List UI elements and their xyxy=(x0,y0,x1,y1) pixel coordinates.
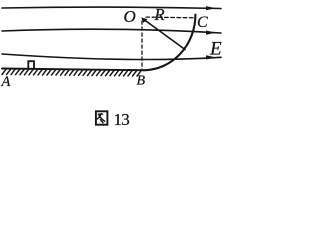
arrowhead at O on radius line xyxy=(141,18,147,23)
svg-text:13: 13 xyxy=(114,110,130,129)
arrowhead on field line E1 xyxy=(206,6,216,10)
circular arc from B to C xyxy=(144,15,196,71)
dashed radius OC xyxy=(146,16,195,19)
svg-text:E: E xyxy=(209,39,222,60)
ground line xyxy=(2,69,143,71)
field line E1 xyxy=(2,7,221,8)
field line E3 xyxy=(2,54,221,60)
block on ground xyxy=(28,61,34,68)
caption character 图 xyxy=(96,111,108,124)
radius line R xyxy=(143,19,185,50)
svg-text:B: B xyxy=(137,73,146,88)
svg-text:C: C xyxy=(197,14,208,31)
svg-text:A: A xyxy=(1,74,11,90)
dashed radius OB xyxy=(141,21,143,70)
arrowhead on field line E2 xyxy=(206,31,216,35)
svg-text:O: O xyxy=(124,7,136,26)
arrowhead on field line E3 xyxy=(206,55,216,59)
ground hatching xyxy=(2,69,141,76)
field line E2 xyxy=(2,29,221,33)
svg-text:R: R xyxy=(154,5,165,24)
